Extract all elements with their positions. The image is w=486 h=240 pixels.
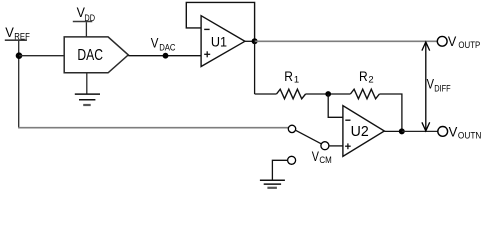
terminal VREF — [5, 24, 30, 42]
wire U2 output stub — [384, 130, 402, 132]
node U2 output — [399, 128, 405, 134]
wire junction to DAC — [19, 55, 64, 57]
svg-text:U2: U2 — [351, 124, 369, 140]
wire VDD pin — [85, 22, 87, 37]
wire U1 output down to R1 — [254, 41, 256, 94]
node U1 output — [252, 38, 258, 44]
terminal VOUTP — [437, 33, 480, 51]
svg-text:V: V — [448, 33, 457, 49]
wire throw to ground — [272, 160, 287, 180]
wire U1 feedback loop — [186, 2, 254, 41]
DAC block — [64, 37, 128, 73]
terminal VOUTN — [438, 123, 482, 141]
switch S1 throw contact (to U2 +) — [321, 142, 329, 150]
svg-text:OUTN: OUTN — [458, 131, 482, 142]
ground (DAC) — [75, 94, 100, 105]
svg-text:R: R — [359, 68, 368, 84]
ground (VCM) — [260, 180, 285, 188]
resistor R2 — [350, 68, 379, 99]
svg-text:V: V — [5, 24, 14, 40]
wire junction down to U2 - input — [328, 94, 343, 117]
node VDAC — [151, 35, 176, 58]
node R1-R2 junction — [325, 91, 331, 97]
wire R1 to R2 — [306, 93, 351, 95]
svg-text:U1: U1 — [211, 33, 227, 49]
node VREF junction — [16, 52, 23, 59]
wire DAC output to U1 + input — [128, 55, 201, 57]
wire R2 right lead down to U2 output — [379, 94, 402, 131]
switch S1 pole contact — [288, 125, 295, 132]
wire bottom run to switch — [18, 127, 288, 129]
switch S1 blade — [295, 130, 321, 144]
wire U1 output stub — [245, 40, 255, 42]
svg-text:2: 2 — [368, 75, 373, 86]
svg-text:OUTP: OUTP — [458, 40, 480, 51]
arrow VDIFF — [422, 42, 451, 131]
svg-text:V: V — [312, 148, 320, 164]
wire U2 output to VOUTN — [402, 130, 438, 132]
switch S1 unused throw contact — [288, 156, 296, 164]
node VCM label — [312, 148, 332, 166]
op-amp U2 — [343, 106, 384, 157]
svg-text:V: V — [151, 35, 159, 50]
wire DAC ground pin — [86, 73, 88, 94]
svg-text:DAC: DAC — [77, 47, 103, 64]
svg-text:DIFF: DIFF — [434, 83, 451, 94]
resistor R1 — [255, 68, 306, 99]
wire switch to U2 + input — [329, 145, 343, 147]
svg-text:1: 1 — [294, 75, 299, 86]
op-amp U1 — [201, 16, 245, 67]
svg-text:V: V — [449, 123, 458, 139]
wire VREF vertical — [18, 41, 20, 128]
svg-text:DAC: DAC — [159, 43, 175, 54]
svg-text:R: R — [284, 68, 293, 84]
wire U1 output to VOUTP — [255, 40, 438, 42]
svg-text:CM: CM — [319, 155, 331, 166]
power VDD — [73, 4, 95, 24]
